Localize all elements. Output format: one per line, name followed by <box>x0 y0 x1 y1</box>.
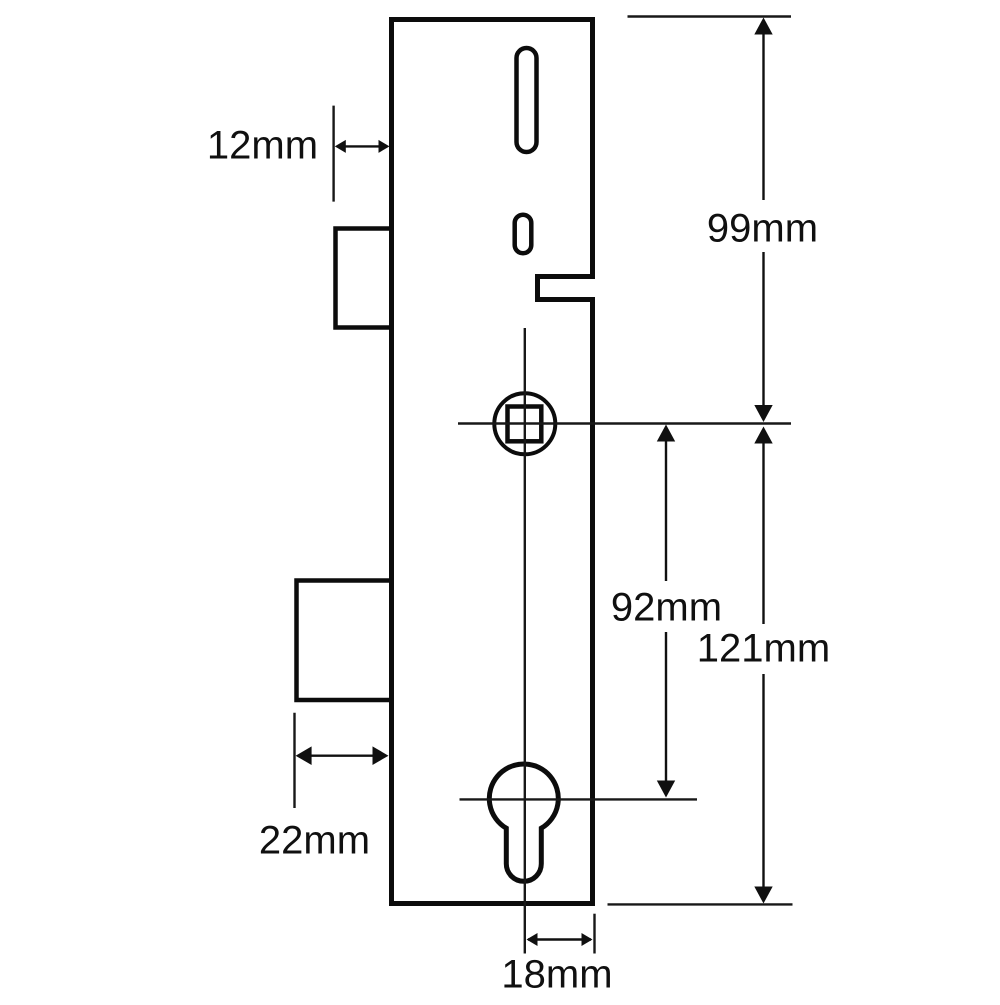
horizontal centerline through cylinder <box>460 798 698 800</box>
vertical centerline <box>524 328 526 954</box>
upper latch block on left <box>336 229 392 328</box>
svg-text:121mm: 121mm <box>697 627 830 671</box>
22mm extension tick <box>293 713 295 808</box>
euro cylinder keyhole profile <box>489 764 558 881</box>
121mm dimension line <box>754 427 772 904</box>
svg-text:99mm: 99mm <box>707 207 818 251</box>
18mm dimension arrow <box>527 933 593 946</box>
svg-text:92mm: 92mm <box>611 586 722 630</box>
svg-text:22mm: 22mm <box>259 819 370 863</box>
lower deadbolt block on left <box>297 581 392 701</box>
99mm dimension line <box>754 18 772 423</box>
horizontal centerline through follower <box>458 422 791 424</box>
svg-text:18mm: 18mm <box>501 953 612 997</box>
lock gearbox plate outline with right-side notch <box>392 20 593 904</box>
92mm dimension line <box>657 425 675 798</box>
12mm extension tick <box>332 106 334 202</box>
12mm dimension arrow <box>335 140 390 153</box>
svg-text:12mm: 12mm <box>207 124 318 168</box>
bottom extension line <box>608 903 793 905</box>
small oval hole <box>515 215 532 254</box>
top mounting slot <box>517 48 537 152</box>
22mm dimension arrow <box>296 746 389 765</box>
spindle follower circle <box>494 393 555 454</box>
18mm extension tick <box>593 914 595 954</box>
top extension line <box>628 15 792 17</box>
spindle follower square <box>508 407 542 442</box>
